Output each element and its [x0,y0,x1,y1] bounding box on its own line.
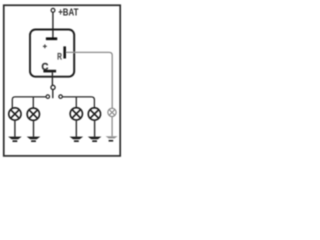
pilot lamp [108,108,116,116]
polarity + mark [43,44,47,48]
lamp L4 [88,108,100,120]
ground lamp L3 [70,137,84,142]
wire lamp L3 to ground [75,120,77,137]
flasher unit box [30,30,74,77]
svg-text:R: R [57,52,62,63]
switch lever [52,90,54,98]
switch common terminal [51,85,55,89]
capacitor top plate [46,37,57,40]
wire C plate to switch common [51,72,53,85]
lamp L3 [70,108,82,120]
switch left contact [46,95,50,99]
ground lamp L2 [27,137,41,142]
border frame [4,5,120,156]
wire +BAT to flasher box [52,12,54,38]
ground pilot lamp lower dash [109,140,114,142]
svg-text:+BAT: +BAT [58,7,78,18]
capacitor C plate [43,70,56,73]
ground lamp L1 [8,137,22,142]
wire lamp L1 to ground [14,120,16,137]
ground pilot lamp [106,136,118,138]
wire right branch [62,97,94,108]
resistor R bar [63,46,66,58]
wire lamp L2 to ground [33,120,35,136]
ground lamp L4 [88,137,102,142]
switch right contact [59,95,63,99]
wire pilot lamp to ground [111,117,113,137]
wire left branch [12,97,46,109]
wire resistor to pilot lamp [66,52,112,108]
lamp L2 [27,108,39,120]
lamp L1 [9,108,21,120]
terminal +BAT [51,8,55,12]
wire lamp L4 to ground [94,120,96,137]
wire stem lamp L3 [75,97,77,108]
wire stem lamp L2 [32,97,34,108]
